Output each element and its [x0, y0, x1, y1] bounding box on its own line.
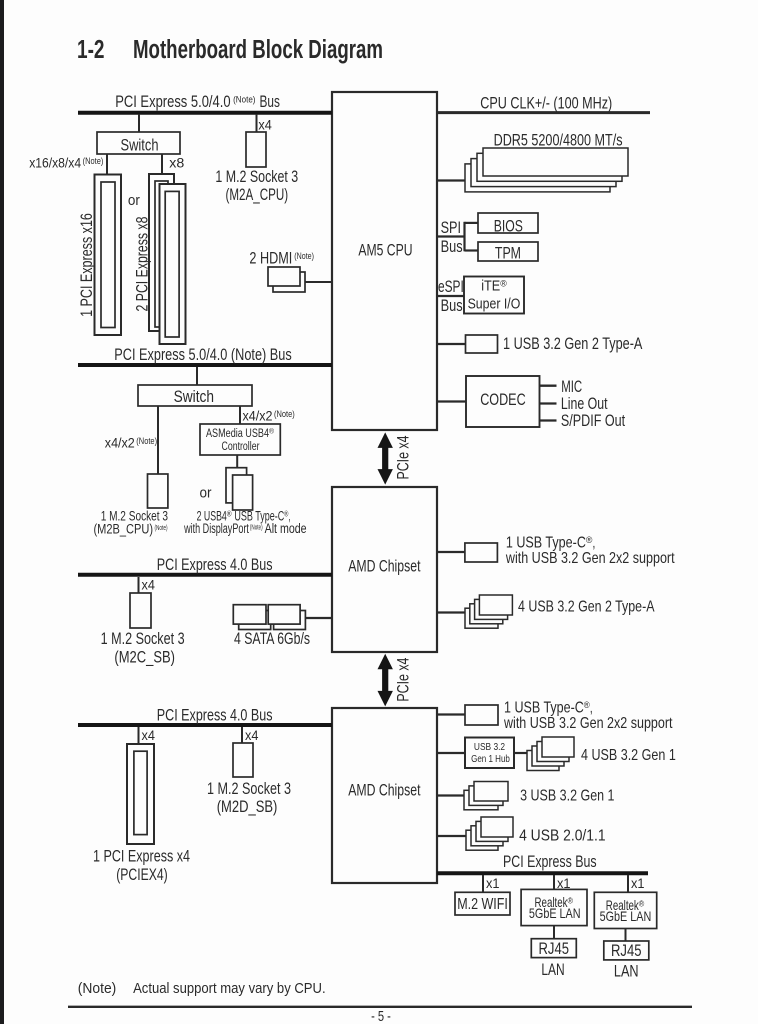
svg-text:®: ®: [227, 509, 232, 518]
svg-text:Alt mode: Alt mode: [265, 521, 307, 537]
svg-text:1 USB Type-C: 1 USB Type-C: [506, 534, 586, 551]
svg-text:®: ®: [269, 428, 275, 436]
svg-text:(Note): (Note): [78, 980, 117, 997]
svg-text:,: ,: [592, 534, 595, 551]
svg-text:x1: x1: [631, 876, 645, 892]
svg-text:DDR5 5200/4800 MT/s: DDR5 5200/4800 MT/s: [494, 132, 623, 150]
svg-text:with USB 3.2 Gen 2x2 support: with USB 3.2 Gen 2x2 support: [503, 715, 673, 732]
svg-text:AMD Chipset: AMD Chipset: [348, 781, 421, 799]
svg-text:®: ®: [639, 898, 645, 908]
svg-text:Gen 1 Hub: Gen 1 Hub: [471, 753, 510, 765]
svg-text:AMD Chipset: AMD Chipset: [348, 558, 421, 576]
svg-text:1 PCI Express x16: 1 PCI Express x16: [78, 213, 96, 317]
svg-text:(Note): (Note): [83, 156, 104, 167]
svg-text:Switch: Switch: [121, 137, 159, 155]
svg-text:1 M.2 Socket 3: 1 M.2 Socket 3: [207, 780, 291, 798]
svg-text:SPI: SPI: [441, 219, 461, 237]
svg-text:x4: x4: [142, 578, 155, 594]
svg-text:Super I/O: Super I/O: [468, 297, 521, 313]
svg-text:M.2 WIFI: M.2 WIFI: [457, 896, 508, 913]
svg-text:2 PCI Express x8: 2 PCI Express x8: [134, 217, 152, 312]
svg-text:RJ45: RJ45: [611, 942, 642, 960]
svg-text:x4/x2: x4/x2: [243, 409, 273, 425]
svg-text:x4/x2: x4/x2: [105, 436, 135, 452]
svg-text:Bus: Bus: [441, 297, 463, 315]
svg-text:x8: x8: [169, 156, 184, 172]
svg-text:(Note): (Note): [233, 95, 255, 106]
svg-text:1 M.2 Socket 3: 1 M.2 Socket 3: [101, 630, 185, 648]
svg-text:USB 3.2: USB 3.2: [474, 741, 505, 753]
svg-text:(M2D_SB): (M2D_SB): [217, 798, 278, 816]
svg-text:TPM: TPM: [495, 245, 521, 263]
svg-text:4 USB 3.2 Gen 1: 4 USB 3.2 Gen 1: [581, 747, 676, 764]
svg-text:AM5 CPU: AM5 CPU: [358, 242, 412, 260]
svg-text:Switch: Switch: [174, 388, 214, 406]
svg-text:Bus: Bus: [260, 93, 280, 111]
svg-text:4 USB 3.2 Gen 2 Type-A: 4 USB 3.2 Gen 2 Type-A: [518, 599, 655, 616]
svg-text:3 USB 3.2 Gen 1: 3 USB 3.2 Gen 1: [520, 787, 614, 804]
svg-text:BIOS: BIOS: [494, 217, 523, 235]
svg-text:iTE: iTE: [481, 279, 500, 295]
svg-text:1 M.2 Socket 3: 1 M.2 Socket 3: [215, 168, 298, 186]
svg-text:CODEC: CODEC: [480, 391, 526, 409]
svg-text:PCI Express Bus: PCI Express Bus: [503, 853, 597, 871]
svg-text:LAN: LAN: [614, 962, 639, 980]
svg-text:with USB 3.2 Gen 2x2 support: with USB 3.2 Gen 2x2 support: [505, 550, 675, 567]
svg-text:PCIe x4: PCIe x4: [394, 436, 412, 480]
svg-text:(Note): (Note): [274, 409, 295, 420]
svg-text:- 5 -: - 5 -: [371, 1008, 391, 1024]
svg-text:PCI Express 5.0/4.0 (Note) Bus: PCI Express 5.0/4.0 (Note) Bus: [114, 346, 291, 364]
svg-text:4 SATA 6Gb/s: 4 SATA 6Gb/s: [234, 630, 310, 648]
svg-text:1 USB 3.2 Gen 2 Type-A: 1 USB 3.2 Gen 2 Type-A: [503, 335, 642, 353]
svg-text:PCI Express 4.0 Bus: PCI Express 4.0 Bus: [157, 556, 273, 574]
svg-text:LAN: LAN: [541, 961, 564, 979]
svg-text:(M2C_SB): (M2C_SB): [114, 648, 175, 666]
svg-text:(Note): (Note): [250, 523, 263, 532]
svg-text:(PCIEX4): (PCIEX4): [116, 866, 168, 884]
svg-text:x4: x4: [245, 728, 258, 744]
svg-text:5GbE LAN: 5GbE LAN: [600, 908, 652, 924]
svg-text:eSPI: eSPI: [438, 278, 464, 296]
svg-text:1 PCI Express x4: 1 PCI Express x4: [93, 848, 190, 866]
svg-text:2 HDMI: 2 HDMI: [249, 250, 292, 268]
svg-text:,: ,: [590, 699, 593, 716]
svg-text:PCI Express 5.0/4.0: PCI Express 5.0/4.0: [115, 93, 230, 111]
svg-text:or: or: [128, 192, 140, 209]
svg-text:5GbE LAN: 5GbE LAN: [529, 905, 581, 921]
svg-text:CPU CLK+/- (100 MHz): CPU CLK+/- (100 MHz): [480, 94, 612, 112]
svg-text:Motherboard Block Diagram: Motherboard Block Diagram: [133, 36, 383, 64]
svg-text:Controller: Controller: [222, 441, 260, 453]
svg-text:PCI Express 4.0 Bus: PCI Express 4.0 Bus: [157, 706, 273, 724]
svg-text:(M2B_CPU): (M2B_CPU): [94, 522, 154, 538]
svg-text:S/PDIF Out: S/PDIF Out: [561, 412, 626, 430]
svg-text:MIC: MIC: [561, 378, 582, 396]
svg-text:1-2: 1-2: [77, 36, 105, 64]
svg-text:or: or: [200, 485, 212, 502]
svg-text:Actual support may vary by CPU: Actual support may vary by CPU.: [133, 980, 326, 997]
svg-text:1 USB Type-C: 1 USB Type-C: [504, 699, 584, 716]
svg-text:RJ45: RJ45: [539, 940, 570, 958]
svg-text:4 USB 2.0/1.1: 4 USB 2.0/1.1: [519, 827, 606, 844]
svg-text:(Note): (Note): [136, 436, 157, 447]
svg-text:Bus: Bus: [441, 238, 463, 256]
svg-text:x16/x8/x4: x16/x8/x4: [29, 156, 81, 172]
svg-text:Line Out: Line Out: [561, 395, 608, 413]
svg-text:ASMedia USB4: ASMedia USB4: [206, 428, 269, 440]
svg-text:(Note): (Note): [294, 251, 314, 262]
svg-text:®: ®: [568, 895, 574, 905]
svg-text:PCIe x4: PCIe x4: [394, 658, 412, 702]
svg-text:x4: x4: [142, 728, 155, 744]
svg-text:(M2A_CPU): (M2A_CPU): [226, 186, 289, 204]
svg-text:x1: x1: [486, 876, 500, 892]
svg-text:®: ®: [500, 279, 507, 289]
svg-text:(Note): (Note): [155, 523, 168, 532]
svg-text:with DisplayPort: with DisplayPort: [183, 521, 248, 537]
